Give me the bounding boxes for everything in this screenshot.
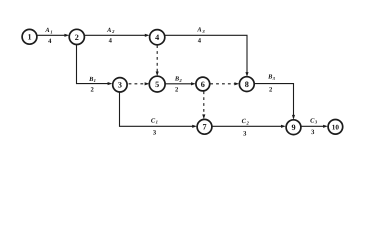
svg-text:4: 4 [155,33,159,42]
svg-text:7: 7 [202,123,206,132]
svg-text:6: 6 [201,80,205,89]
svg-text:A: A [44,27,49,34]
svg-text:2: 2 [75,33,79,42]
svg-text:8: 8 [245,80,249,89]
svg-text:5: 5 [155,80,159,89]
svg-text:1: 1 [27,33,31,42]
svg-text:9: 9 [291,123,295,132]
svg-text:3: 3 [118,81,122,90]
svg-text:1: 1 [156,120,158,125]
svg-text:10: 10 [332,124,340,132]
svg-text:A: A [106,27,111,34]
svg-text:1: 1 [50,29,52,34]
svg-text:1: 1 [94,78,96,83]
svg-text:A: A [196,27,201,34]
